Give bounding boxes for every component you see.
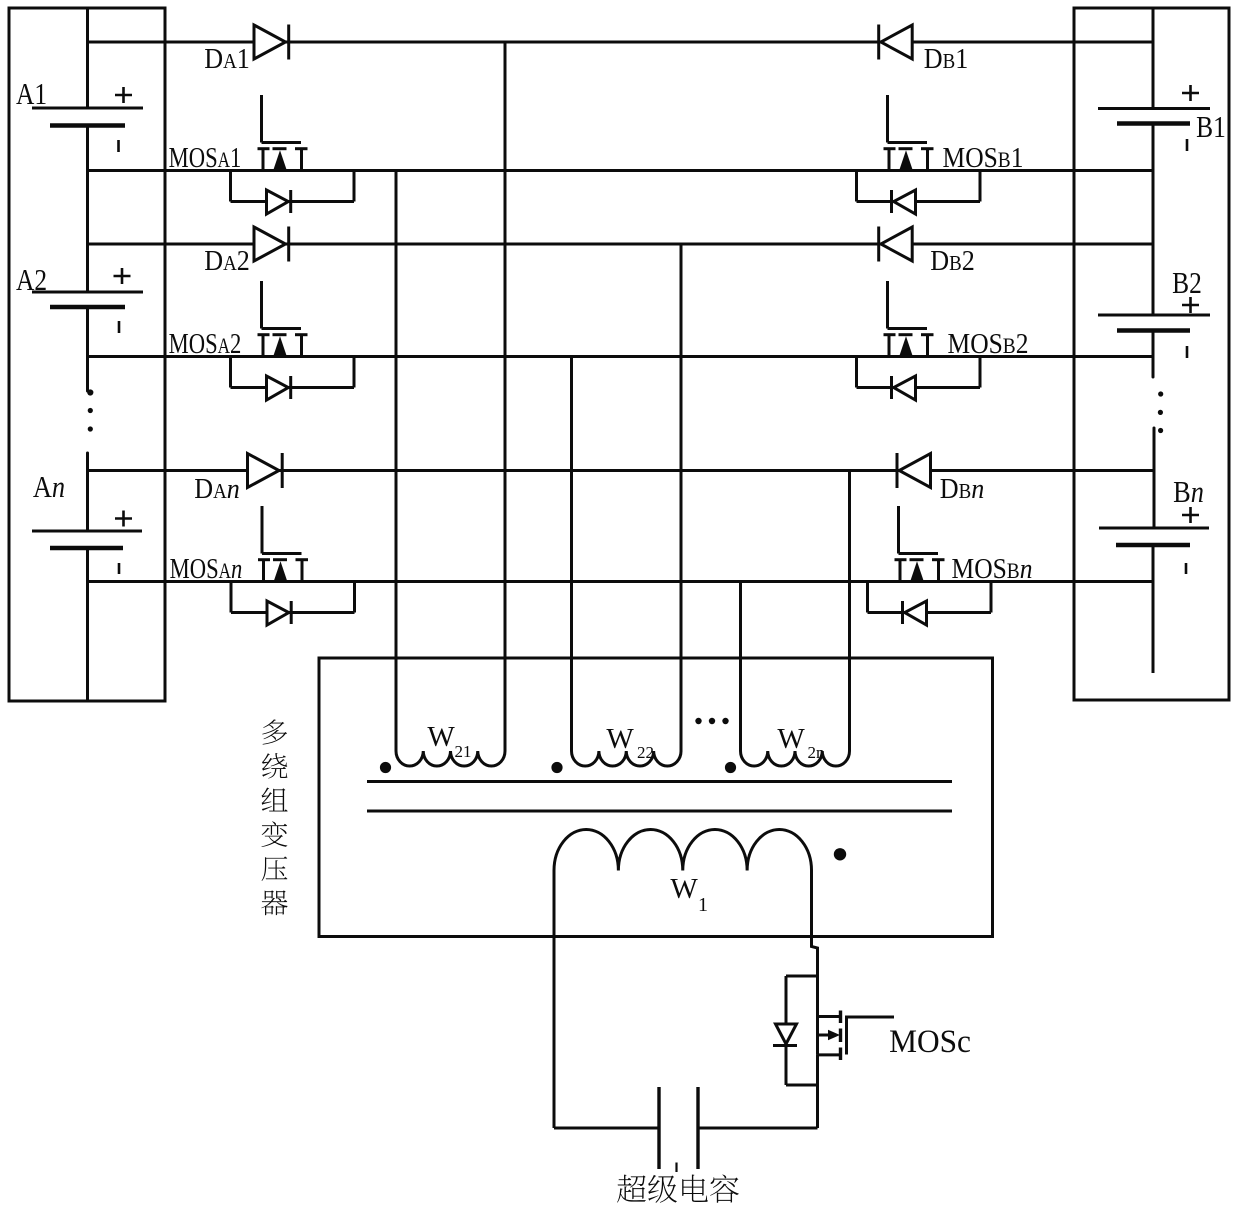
wire: stack B above Bn — [1153, 428, 1156, 528]
wire: stack A between A1 and A2 — [86, 126, 89, 293]
svg-text:A1: A1 — [16, 78, 47, 112]
B1 minus sign — [1186, 139, 1189, 151]
body bypass diode of MOSAn — [231, 582, 355, 626]
polarity dot of W1 — [834, 848, 846, 860]
body bypass diode of MOSc — [773, 976, 818, 1085]
Bn minus sign — [1185, 563, 1188, 574]
wire: stack A bottom segment — [86, 548, 89, 701]
wire: stack A above An — [86, 453, 89, 531]
body bypass diode of MOSA1 — [231, 171, 355, 215]
battery cell An — [32, 531, 142, 548]
diode DA1 — [254, 25, 289, 60]
polarity dot of W2n — [725, 762, 736, 773]
label supercapacitor (CJK) — [617, 1174, 739, 1202]
body bypass diode of MOSB1 — [857, 171, 981, 215]
A1 minus sign — [117, 140, 120, 152]
A1 plus sign — [115, 87, 132, 103]
battery cell Bn — [1099, 528, 1209, 545]
svg-text:2n: 2n — [808, 743, 826, 762]
polarity dot of W22 — [551, 762, 562, 773]
wire: row 1 top bus (A1+/B1+ line) — [88, 41, 1154, 44]
svg-text:W: W — [670, 873, 698, 905]
wire: tap row3 to winding W22 right end — [680, 244, 683, 751]
wire: stack A top segment — [86, 8, 89, 108]
transistor MOSB1 — [884, 95, 934, 171]
diode DA2 — [254, 227, 289, 262]
ellipsis dots in stack A — [87, 389, 93, 431]
winding W2n — [740, 751, 849, 766]
svg-text:MOSBn: MOSBn — [952, 553, 1033, 585]
wire: tap row1 to winding W21 right end — [504, 42, 507, 751]
B2 minus sign — [1186, 346, 1189, 358]
wire: stack B bottom segment — [1152, 545, 1155, 673]
B2 plus sign — [1182, 297, 1199, 313]
winding W1 — [554, 830, 812, 871]
svg-text:W: W — [427, 721, 455, 753]
battery cell A2 — [32, 292, 143, 307]
svg-text:MOSc: MOSc — [889, 1022, 971, 1059]
body bypass diode of MOSB2 — [857, 357, 981, 401]
svg-text:An: An — [33, 470, 65, 504]
wire: row 6 MOSAn-MOSBn line — [88, 580, 1154, 583]
diode DBn — [897, 453, 931, 488]
An minus sign — [118, 563, 121, 574]
supercapacitor C — [659, 1087, 698, 1169]
wire: row 4 MOSA2-MOSB2 line — [88, 355, 1154, 358]
wire: stack B top segment — [1152, 8, 1155, 109]
wire: supercap right plate connection — [698, 1127, 818, 1130]
svg-text:W: W — [777, 723, 805, 755]
svg-text:Bn: Bn — [1173, 475, 1204, 509]
transistor MOSAn — [258, 506, 308, 582]
wire: W1 right lead down — [812, 871, 818, 1017]
battery cell A1 — [32, 108, 143, 126]
svg-text:MOSA1: MOSA1 — [169, 141, 242, 173]
wire: tap row2 to winding W21 left end — [395, 171, 398, 752]
svg-text:B2: B2 — [1172, 267, 1202, 301]
Bn plus sign — [1182, 507, 1199, 523]
winding W21 — [396, 751, 505, 766]
transistor MOSc — [818, 1011, 895, 1061]
B1 plus sign — [1182, 85, 1199, 101]
transformer core bar upper — [367, 780, 952, 783]
svg-text:W: W — [606, 723, 634, 755]
battery pack A enclosure box — [9, 8, 165, 701]
wire: supercap left plate connection — [554, 1127, 659, 1130]
diode DB1 — [879, 25, 913, 60]
svg-text:B1: B1 — [1196, 111, 1226, 145]
body bypass diode of MOSA2 — [231, 357, 355, 401]
svg-text:21: 21 — [455, 742, 472, 761]
svg-text:1: 1 — [698, 894, 708, 916]
transistor MOSB2 — [884, 281, 934, 357]
wire: MOSc source down to supercap line — [816, 1055, 819, 1128]
A2 minus sign — [118, 321, 121, 333]
svg-text:A2: A2 — [16, 264, 47, 298]
wire: stack B between B1 and B2 — [1152, 124, 1155, 316]
An plus sign — [115, 511, 132, 527]
battery pack B enclosure box — [1074, 8, 1229, 700]
wire: row 2 MOSA1-MOSB1 line — [88, 169, 1154, 172]
transformer core bar lower — [367, 810, 952, 813]
battery cell B1 — [1098, 109, 1210, 124]
svg-text:MOSB2: MOSB2 — [948, 328, 1029, 360]
svg-text:MOSA2: MOSA2 — [169, 327, 242, 359]
body bypass diode of MOSBn — [868, 582, 992, 626]
transistor MOSA2 — [258, 281, 308, 357]
battery cell B2 — [1098, 315, 1210, 331]
wire: stack B below B2 — [1152, 331, 1155, 378]
ellipsis between W22 and W2n — [695, 718, 728, 724]
diode DAn — [248, 453, 283, 488]
label multi-winding transformer (vertical CJK) — [261, 719, 287, 915]
wire: row 3 DA2-DB2 line — [88, 243, 1154, 246]
wire: W1 left lead down to supercap — [553, 871, 556, 1129]
diode DB2 — [879, 227, 913, 262]
transistor MOSBn — [895, 506, 945, 582]
A2 plus sign — [114, 268, 131, 284]
svg-text:MOSB1: MOSB1 — [943, 142, 1024, 174]
svg-text:MOSAn: MOSAn — [170, 552, 243, 584]
multi-winding transformer box — [319, 658, 993, 937]
svg-text:22: 22 — [637, 743, 654, 762]
wire: tap row6 to winding W2n left end — [739, 582, 742, 752]
wire: tap row5 to winding W2n right end — [848, 471, 851, 752]
ellipsis dots in stack B — [1158, 391, 1163, 433]
winding W22 — [572, 751, 682, 766]
stray tick above supercap label — [675, 1163, 677, 1173]
wire: row 5 DAn-DBn line — [88, 469, 1154, 472]
polarity dot of W21 — [380, 762, 391, 773]
wire: stack A below A2 — [86, 307, 89, 391]
transistor MOSA1 — [258, 95, 308, 171]
wire: tap row4 to winding W22 left end — [570, 357, 573, 752]
